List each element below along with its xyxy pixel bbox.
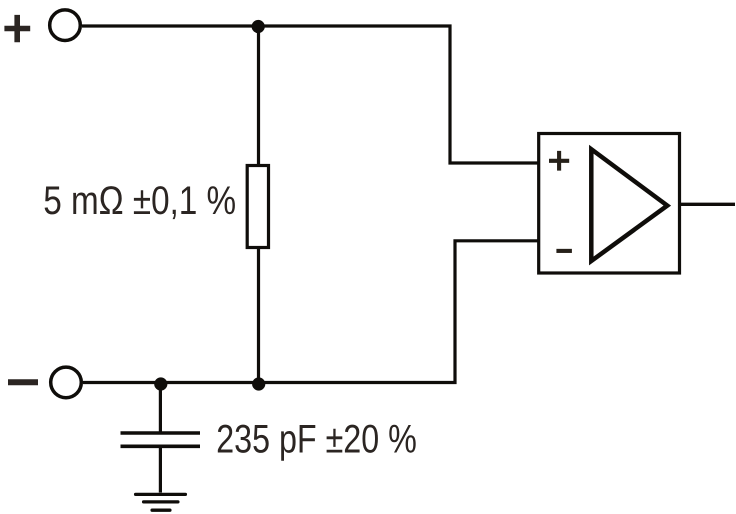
op-amp triangle [591, 149, 667, 261]
op-amp - input pin label [556, 249, 572, 253]
resistor 5 mOhm (shunt) [247, 166, 268, 248]
wire: capacitor bottom lead to ground [159, 448, 162, 493]
value label 5 mOhm [45, 186, 235, 219]
wire: bottom rail from - terminal to corner, up to op-amp - input [83, 241, 538, 383]
capacitor 235 pF: top plate [121, 431, 201, 435]
wire: output [681, 203, 735, 206]
wire: resistor bottom to bottom rail [257, 248, 260, 383]
terminal circle (negative input) [51, 367, 82, 398]
terminal label + (positive input marker) [4, 15, 30, 42]
wire: capacitor top lead [159, 383, 162, 432]
value label 235 pF [218, 425, 416, 461]
terminal circle (positive input) [50, 10, 81, 41]
node: bottom junction dot (capacitor tap) [154, 377, 167, 390]
capacitor 235 pF: bottom plate [121, 444, 201, 448]
terminal label - (negative input marker) [8, 379, 38, 385]
wire: junction down to resistor top [257, 26, 260, 166]
wire: top rail from + terminal to corner, down to op-amp + input [82, 26, 538, 163]
op-amp + input pin label [549, 151, 569, 171]
op-amp U1 box [539, 134, 680, 274]
ground symbol [136, 494, 186, 510]
node: bottom junction dot (resistor tap) [252, 377, 265, 390]
node: top junction dot [252, 20, 265, 33]
